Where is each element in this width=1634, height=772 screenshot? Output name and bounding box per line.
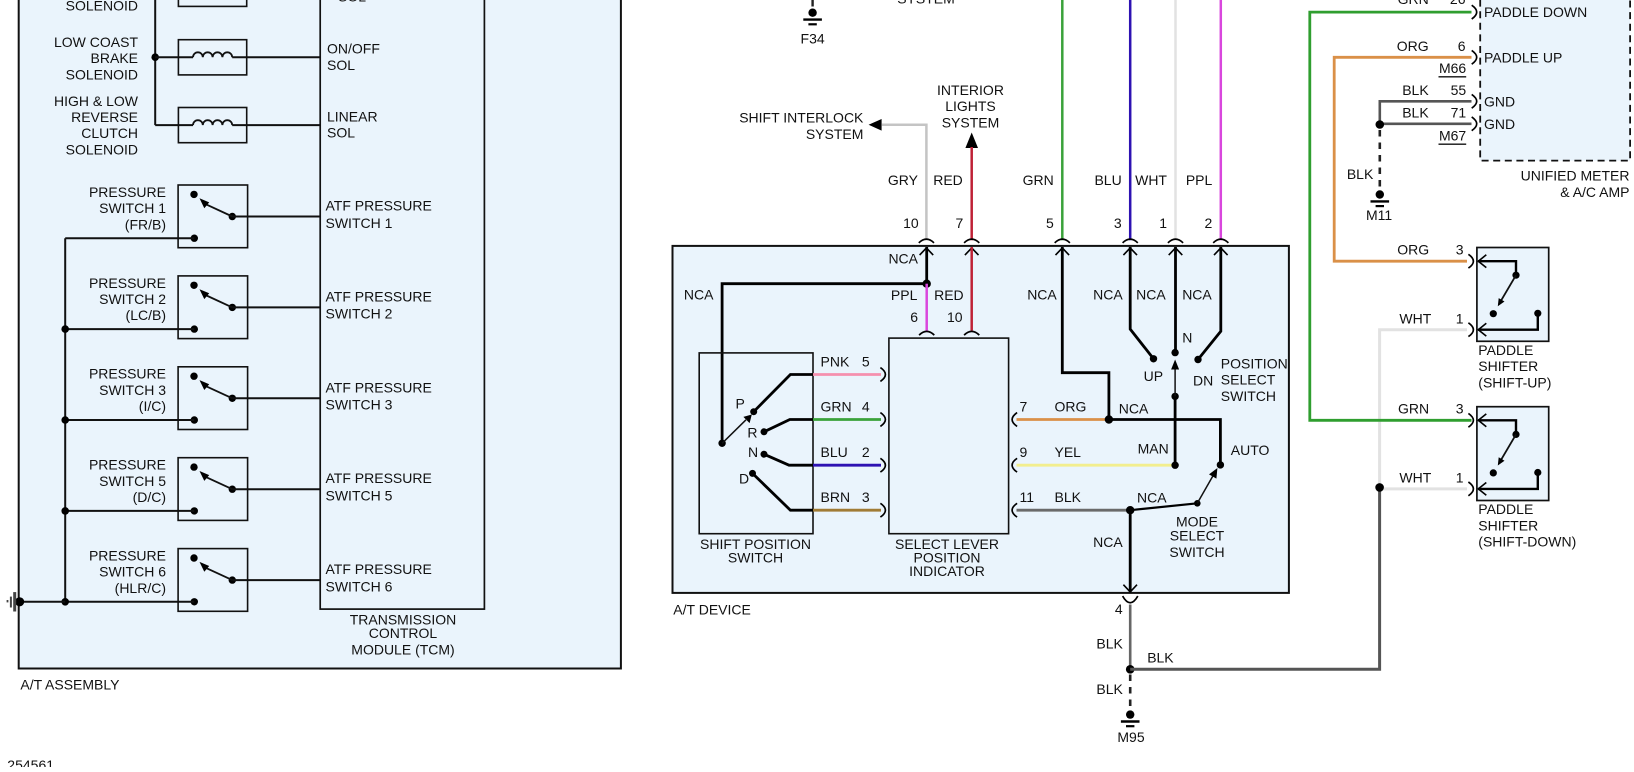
SHIFT INTERLOCK SYSTEM label (739, 110, 864, 142)
arrow to shift interlock system (869, 119, 882, 131)
svg-text:PADDLE UP: PADDLE UP (1484, 49, 1562, 65)
wire: pressure switch 3 ground side (65, 419, 194, 421)
svg-text:SOL: SOL (327, 57, 355, 73)
shift position switch box (699, 353, 813, 534)
connector arc shift-up pin 1 (1468, 323, 1473, 337)
pressure switch 5 box (178, 458, 248, 521)
wire: pressure switch 6 ground side (65, 601, 194, 603)
connector arc indicator left pin 4 (880, 413, 885, 427)
junction: BLK ground node (1126, 665, 1135, 674)
wire: pressure switch 6 to TCM (232, 579, 320, 581)
svg-text:9: 9 (1020, 444, 1028, 460)
svg-text:NCA: NCA (1137, 490, 1167, 506)
connector arc shift-down pin 3 (1468, 413, 1473, 427)
svg-text:(FR/B): (FR/B) (125, 216, 166, 232)
wire: pressure switch 1 to TCM (232, 216, 320, 218)
svg-text:BLK: BLK (1096, 636, 1123, 652)
svg-text:SHIFTER: SHIFTER (1478, 517, 1538, 533)
junction: bus PS2 (61, 325, 69, 333)
PRESSURE SWITCH 2 label (89, 275, 166, 323)
wire WHT: shift-up pin 1 (1380, 330, 1467, 488)
wire: pressure switch 2 to TCM (232, 306, 320, 308)
svg-text:SYSTEM: SYSTEM (806, 126, 864, 142)
wire: pressure switch 2 ground side (65, 328, 194, 330)
wire GRN: from top to A/T device (1061, 0, 1064, 240)
wire WHT: shift-down pin 1 (1380, 487, 1467, 490)
svg-text:(LC/B): (LC/B) (126, 307, 166, 323)
svg-text:UNIFIED METER: UNIFIED METER (1521, 168, 1630, 184)
svg-text:NCA: NCA (1093, 534, 1123, 550)
svg-text:MAN: MAN (1138, 441, 1169, 457)
wire: pressure switch 5 to TCM (232, 488, 320, 490)
svg-text:NCA: NCA (1093, 286, 1123, 302)
ON/OFF SOL label (327, 41, 380, 73)
wire NCA: pin 5 to ORG node (1062, 247, 1109, 420)
wire NCA: ORG node to AUTO contact (1109, 420, 1221, 465)
svg-text:INTERIOR: INTERIOR (937, 82, 1004, 98)
connector arc GND 71 (1472, 117, 1477, 131)
mode select wiper arrow (1197, 474, 1214, 503)
svg-text:RED: RED (933, 172, 963, 188)
svg-text:(SHIFT-UP): (SHIFT-UP) (1478, 374, 1551, 390)
mode select wiper pivot (1194, 500, 1201, 507)
wire: pressure switch 1 ground side (65, 237, 194, 239)
svg-text:SWITCH 6: SWITCH 6 (326, 578, 393, 594)
svg-text:7: 7 (1020, 399, 1028, 415)
ATF PRESSURE SWITCH 5 label (326, 470, 432, 503)
svg-text:N: N (748, 444, 758, 460)
svg-text:BLU: BLU (1094, 172, 1121, 188)
connector arc at A/T device top (1055, 239, 1070, 243)
P contact (750, 408, 757, 415)
svg-text:1: 1 (1159, 215, 1167, 231)
svg-text:AUTO: AUTO (1231, 442, 1270, 458)
svg-text:GRN: GRN (1398, 0, 1429, 7)
svg-text:3: 3 (1456, 401, 1464, 417)
wiper arrow (to P) (722, 420, 746, 444)
ground M11 (1371, 190, 1390, 206)
connector arc indicator right pin 7 (1012, 413, 1017, 427)
svg-text:ON/OFF: ON/OFF (327, 41, 380, 57)
svg-text:POSITION: POSITION (1221, 356, 1288, 372)
svg-text:1: 1 (1456, 470, 1464, 486)
connector arc indicator right pin 9 (1012, 458, 1017, 472)
svg-text:F34: F34 (801, 30, 825, 46)
svg-text:PRESSURE: PRESSURE (89, 457, 166, 473)
svg-text:UP: UP (1144, 368, 1163, 384)
wire: pressure switch 5 ground side (65, 510, 194, 512)
svg-text:3: 3 (1456, 242, 1464, 258)
svg-text:ATF PRESSURE: ATF PRESSURE (326, 561, 432, 577)
svg-text:11: 11 (1020, 489, 1035, 505)
ground F34 (803, 9, 822, 25)
exit arrow pin 4 (1123, 585, 1137, 592)
ATF PRESSURE SWITCH 1 label (326, 198, 432, 231)
wire NCA: BLK node to pin 4 exit (1129, 510, 1132, 592)
select lever position indicator box (889, 338, 1009, 534)
wire YEL: from indicator (1017, 464, 1176, 467)
PADDLE SHIFTER (SHIFT-UP) label (1478, 342, 1551, 391)
LINEAR SOL label (327, 109, 378, 141)
HIGH & LOW REVERSE CLUTCH SOLENOID label (54, 93, 139, 158)
wire GRY: shift interlock to pin 10 (882, 125, 927, 241)
svg-text:& A/C AMP: & A/C AMP (1560, 184, 1629, 200)
wire: pressure switch 3 to TCM (232, 397, 320, 399)
svg-text:GND: GND (1484, 116, 1515, 132)
svg-text:7: 7 (956, 215, 964, 231)
entry arrow (1214, 248, 1228, 255)
svg-text:6: 6 (910, 309, 918, 325)
wire PPL: from top to A/T device (1220, 0, 1223, 240)
wire ORG: from indicator (1017, 418, 1109, 421)
svg-text:GRN: GRN (1023, 172, 1054, 188)
connector arc at A/T device top (919, 239, 934, 243)
solenoid coil: LINEAR SOL (high & low reverse clutch) (155, 124, 193, 126)
svg-text:PRESSURE: PRESSURE (89, 548, 166, 564)
pressure switch 3 box (178, 367, 248, 430)
svg-text:WHT: WHT (1399, 310, 1431, 326)
SHIFT POSITION SWITCH label (700, 536, 811, 565)
svg-text:ORG: ORG (1397, 242, 1429, 258)
svg-text:ATF PRESSURE: ATF PRESSURE (326, 198, 432, 214)
svg-text:SWITCH 2: SWITCH 2 (99, 291, 166, 307)
svg-text:GND: GND (1484, 93, 1515, 109)
wire BLK: from indicator (1017, 509, 1131, 512)
position select wiper pivot (1171, 393, 1178, 400)
junction: at assembly edge (15, 597, 24, 606)
entry arrow (1123, 248, 1137, 255)
junction: NCA/PPL node (923, 280, 931, 288)
junction: BLK to M11 (1376, 120, 1385, 129)
svg-text:NCA: NCA (1119, 400, 1149, 416)
wire BLK: ground node to paddle shifters (1130, 487, 1379, 669)
svg-text:BLK: BLK (1055, 489, 1082, 505)
connector arc PADDLE DOWN (1472, 5, 1477, 19)
svg-text:LIGHTS: LIGHTS (945, 98, 996, 114)
svg-text:PPL: PPL (1186, 172, 1213, 188)
common contact dot (718, 440, 725, 447)
entry arrow (920, 248, 934, 255)
svg-text:NCA: NCA (1027, 286, 1057, 302)
svg-text:N: N (1182, 329, 1192, 345)
junction: low coast brake solenoid (151, 53, 159, 61)
svg-text:M66: M66 (1439, 60, 1466, 76)
svg-text:ATF PRESSURE: ATF PRESSURE (326, 379, 432, 395)
svg-text:1: 1 (1456, 310, 1464, 326)
svg-text:LINEAR: LINEAR (327, 109, 378, 125)
svg-text:SOLENOID: SOLENOID (66, 141, 138, 157)
svg-text:(HLR/C): (HLR/C) (115, 580, 166, 596)
connector arc at A/T device top (1168, 239, 1183, 243)
svg-text:RED: RED (934, 287, 964, 303)
position select wiper arrow (1174, 367, 1176, 397)
svg-text:SWITCH 3: SWITCH 3 (326, 397, 393, 413)
arrow to interior lights system (965, 133, 978, 149)
connector arc at A/T device top (1213, 239, 1228, 243)
svg-text:GRN: GRN (821, 399, 852, 415)
svg-text:26: 26 (1450, 0, 1466, 7)
LOW COAST BRAKE SOLENOID label (54, 34, 138, 82)
svg-text:PNK: PNK (821, 354, 850, 370)
svg-text:SOLENOID: SOLENOID (66, 0, 138, 14)
SELECT LEVER POSITION INDICATOR label (895, 536, 999, 579)
connector arc pin 4 (1123, 596, 1138, 603)
svg-text:SHIFT INTERLOCK: SHIFT INTERLOCK (739, 110, 864, 126)
connector arc shift-up pin 3 (1468, 254, 1473, 268)
entry arrow (1169, 248, 1183, 255)
junction: WHT node (1375, 483, 1384, 492)
wire NCA: pin 3 to UP contact (1130, 247, 1153, 359)
svg-text:YEL: YEL (1055, 444, 1082, 460)
svg-text:A/T ASSEMBLY: A/T ASSEMBLY (20, 677, 120, 693)
svg-text:(I/C): (I/C) (139, 398, 166, 414)
svg-text:5: 5 (1046, 215, 1054, 231)
wire ORG: to PADDLE UP pin 6 (1334, 57, 1471, 261)
wire BLK: GND 55 (1380, 101, 1472, 124)
wire: bus to assembly edge (19, 601, 65, 603)
svg-text:R: R (747, 424, 757, 440)
connector arc GND 55 (1472, 94, 1477, 108)
UP contact (1150, 355, 1157, 362)
connector arc indicator left pin 5 (880, 368, 885, 382)
wire GRN: to PADDLE DOWN pin 26 (1310, 12, 1472, 420)
svg-text:3: 3 (862, 489, 870, 505)
connector arc indicator right pin 11 (1012, 503, 1017, 517)
svg-text:BLK: BLK (1402, 82, 1429, 98)
svg-text:SWITCH: SWITCH (1221, 388, 1276, 404)
svg-text:BLK: BLK (1096, 681, 1123, 697)
svg-text:SWITCH 2: SWITCH 2 (326, 306, 393, 322)
svg-text:P: P (736, 396, 745, 412)
svg-text:GRY: GRY (888, 172, 919, 188)
svg-text:SOL: SOL (338, 0, 366, 5)
svg-text:NCA: NCA (1182, 286, 1212, 302)
svg-text:SELECT: SELECT (1170, 528, 1225, 544)
svg-text:71: 71 (1451, 105, 1467, 121)
TCM label (350, 611, 457, 657)
paddle shifter (shift-up) switch (1477, 248, 1549, 342)
junction: bus PS3 (61, 416, 69, 424)
svg-text:6: 6 (1458, 38, 1466, 54)
svg-text:SWITCH 5: SWITCH 5 (326, 488, 393, 504)
svg-text:WHT: WHT (1399, 470, 1431, 486)
A/T assembly box (19, 0, 621, 669)
wire: pressure switch ground bus (64, 238, 66, 602)
PRESSURE SWITCH 6 label (89, 548, 166, 596)
D contact (749, 470, 756, 477)
svg-text:PADDLE DOWN: PADDLE DOWN (1484, 4, 1587, 20)
svg-text:SOL: SOL (327, 125, 355, 141)
wire NCA: pin 2 to DN contact (1198, 247, 1221, 360)
pressure switch 1 box (178, 185, 248, 248)
entry arrow (965, 248, 979, 255)
POSITION SELECT SWITCH label (1221, 356, 1288, 404)
wire: dashed stub above F34 (811, 0, 813, 7)
wire: BRN contact link (753, 473, 814, 510)
svg-text:PADDLE: PADDLE (1478, 342, 1533, 358)
junction: bus PS5 (61, 507, 69, 515)
wire BLK: dashed to M11 (1379, 130, 1382, 190)
wire PNK: to indicator (813, 373, 881, 376)
svg-text:SELECT: SELECT (1221, 372, 1276, 388)
svg-text:D: D (739, 470, 749, 486)
svg-text:M95: M95 (1117, 729, 1144, 745)
wire: PNK contact link (754, 375, 813, 412)
wire NCA: pin 10 down to junction (925, 247, 928, 284)
svg-text:M67: M67 (1439, 128, 1466, 144)
connector arc at A/T device top (1123, 239, 1138, 243)
svg-text:(D/C): (D/C) (133, 489, 166, 505)
wire RED: pin 7 to indicator pin 10 (970, 247, 973, 331)
connector arc indicator left pin 3 (880, 503, 885, 517)
svg-text:ATF PRESSURE: ATF PRESSURE (326, 288, 432, 304)
svg-text:SYSTEM: SYSTEM (897, 0, 955, 6)
wire: GRN contact link (764, 420, 813, 432)
svg-text:SWITCH: SWITCH (728, 550, 783, 566)
entry arrow (1056, 248, 1070, 255)
connector arc at A/T device top (964, 239, 979, 243)
wire NCA: junction left and down to shift position switch (722, 284, 927, 444)
svg-text:CLUTCH: CLUTCH (81, 125, 138, 141)
svg-text:SWITCH 1: SWITCH 1 (326, 215, 393, 231)
UNIFIED METER & A/C AMP label (1521, 168, 1630, 200)
svg-text:5: 5 (862, 354, 870, 370)
wire PPL: junction to indicator pin 6 (925, 284, 928, 331)
connector arc indicator pin 6 (919, 331, 934, 335)
R contact (761, 428, 768, 435)
svg-text:SHIFTER: SHIFTER (1478, 358, 1538, 374)
svg-text:MODULE (TCM): MODULE (TCM) (351, 641, 454, 657)
pressure switch 2 box (178, 276, 248, 339)
svg-text:BLU: BLU (821, 444, 848, 460)
svg-text:NCA: NCA (1136, 286, 1166, 302)
INTERIOR LIGHTS SYSTEM label (937, 82, 1004, 130)
wire BLK: dashed to M95 (1129, 675, 1132, 710)
connector arc indicator left pin 2 (880, 458, 885, 472)
wire BRN: to indicator (813, 509, 881, 512)
svg-text:NCA: NCA (684, 286, 714, 302)
wire RED: interior lights to pin 7 (970, 147, 973, 240)
junction: bus PS6 (61, 598, 69, 606)
PRESSURE SWITCH 3 label (89, 366, 166, 414)
svg-text:SWITCH: SWITCH (1169, 544, 1224, 560)
svg-text:2: 2 (1205, 215, 1213, 231)
svg-text:PADDLE: PADDLE (1478, 501, 1533, 517)
MAN contact (1171, 462, 1178, 469)
svg-text:BLK: BLK (1347, 166, 1374, 182)
PRESSURE SWITCH 5 label (89, 457, 166, 505)
DN contact (1194, 356, 1201, 363)
wire WHT: from top to A/T device (1174, 0, 1177, 240)
wire BLK: pin 4 down (1129, 605, 1132, 670)
PRESSURE SWITCH 1 label (89, 184, 166, 232)
junction: ORG/NCA node (1105, 415, 1113, 423)
svg-text:10: 10 (947, 309, 963, 325)
N contact (761, 451, 768, 458)
svg-text:BRAKE: BRAKE (91, 50, 138, 66)
svg-text:10: 10 (903, 215, 919, 231)
svg-text:2: 2 (862, 444, 870, 460)
svg-text:WHT: WHT (1135, 172, 1167, 188)
paddle shifter (shift-down) switch (1477, 407, 1549, 501)
TCM box (320, 0, 484, 609)
PADDLE SHIFTER (SHIFT-DOWN) label (1478, 501, 1576, 550)
svg-text:254561: 254561 (7, 757, 54, 767)
svg-text:GRN: GRN (1398, 401, 1429, 417)
wire NCA: pin 1 to N contact (1174, 247, 1177, 353)
svg-text:BRN: BRN (821, 489, 851, 505)
wire GRN: to indicator (813, 418, 881, 421)
junction: BLK node (mode select common) (1126, 506, 1134, 514)
svg-text:3: 3 (1114, 215, 1122, 231)
pressure switch 6 box (178, 549, 248, 612)
svg-text:ORG: ORG (1055, 399, 1087, 415)
svg-text:SWITCH 1: SWITCH 1 (99, 200, 166, 216)
solenoid coil: ON/OFF SOL (low coast brake) (155, 56, 193, 58)
svg-text:A/T DEVICE: A/T DEVICE (673, 602, 751, 618)
AUTO contact (1217, 461, 1224, 468)
svg-text:SWITCH 5: SWITCH 5 (99, 473, 166, 489)
svg-text:55: 55 (1451, 82, 1467, 98)
svg-text:M11: M11 (1366, 207, 1392, 223)
svg-text:PRESSURE: PRESSURE (89, 275, 166, 291)
svg-text:LOW COAST: LOW COAST (54, 34, 138, 50)
svg-text:ATF PRESSURE: ATF PRESSURE (326, 470, 432, 486)
svg-text:4: 4 (1115, 601, 1123, 617)
wire: wiper pivot to MAN contact (1174, 396, 1177, 465)
wire: solenoid bus vertical (154, 0, 156, 125)
connector arc PADDLE UP (1472, 50, 1477, 64)
svg-text:BLK: BLK (1402, 105, 1429, 121)
mode select wiper link (1130, 503, 1197, 510)
connector symbol at assembly edge (7, 592, 15, 611)
svg-text:BLK: BLK (1147, 649, 1174, 665)
MODE SELECT SWITCH label (1169, 514, 1224, 560)
svg-text:CONTROL: CONTROL (369, 625, 438, 641)
wire BLU: from top to A/T device (1129, 0, 1132, 240)
svg-text:PPL: PPL (891, 287, 918, 303)
svg-text:SOLENOID: SOLENOID (66, 66, 138, 82)
ATF PRESSURE SWITCH 3 label (326, 379, 432, 412)
wire BLK: GND 71 (1380, 123, 1472, 126)
N contact (position select) (1171, 349, 1178, 356)
svg-text:NCA: NCA (888, 251, 918, 267)
ATF PRESSURE SWITCH 2 label (326, 288, 432, 321)
svg-text:HIGH & LOW: HIGH & LOW (54, 93, 139, 109)
svg-text:PRESSURE: PRESSURE (89, 184, 166, 200)
svg-text:SYSTEM: SYSTEM (942, 114, 1000, 130)
svg-text:PRESSURE: PRESSURE (89, 366, 166, 382)
svg-text:ORG: ORG (1397, 38, 1429, 54)
svg-text:INDICATOR: INDICATOR (909, 563, 985, 579)
svg-text:SWITCH 3: SWITCH 3 (99, 382, 166, 398)
wire BLU: to indicator (813, 464, 881, 467)
svg-text:REVERSE: REVERSE (71, 109, 138, 125)
A/T device box (673, 246, 1289, 593)
unified meter & a/c amp box (dashed) (1480, 0, 1630, 161)
solenoid (top, clipped) (178, 0, 246, 6)
ATF PRESSURE SWITCH 6 label (326, 561, 432, 594)
svg-text:DN: DN (1193, 373, 1213, 389)
svg-text:4: 4 (862, 399, 870, 415)
ground M95 (1121, 710, 1140, 726)
svg-text:SWITCH 6: SWITCH 6 (99, 564, 166, 580)
connector arc indicator pin 10 (964, 331, 979, 335)
wire: BLU contact link (764, 454, 813, 465)
svg-text:(SHIFT-DOWN): (SHIFT-DOWN) (1478, 534, 1576, 550)
connector arc shift-down pin 1 (1468, 482, 1473, 496)
